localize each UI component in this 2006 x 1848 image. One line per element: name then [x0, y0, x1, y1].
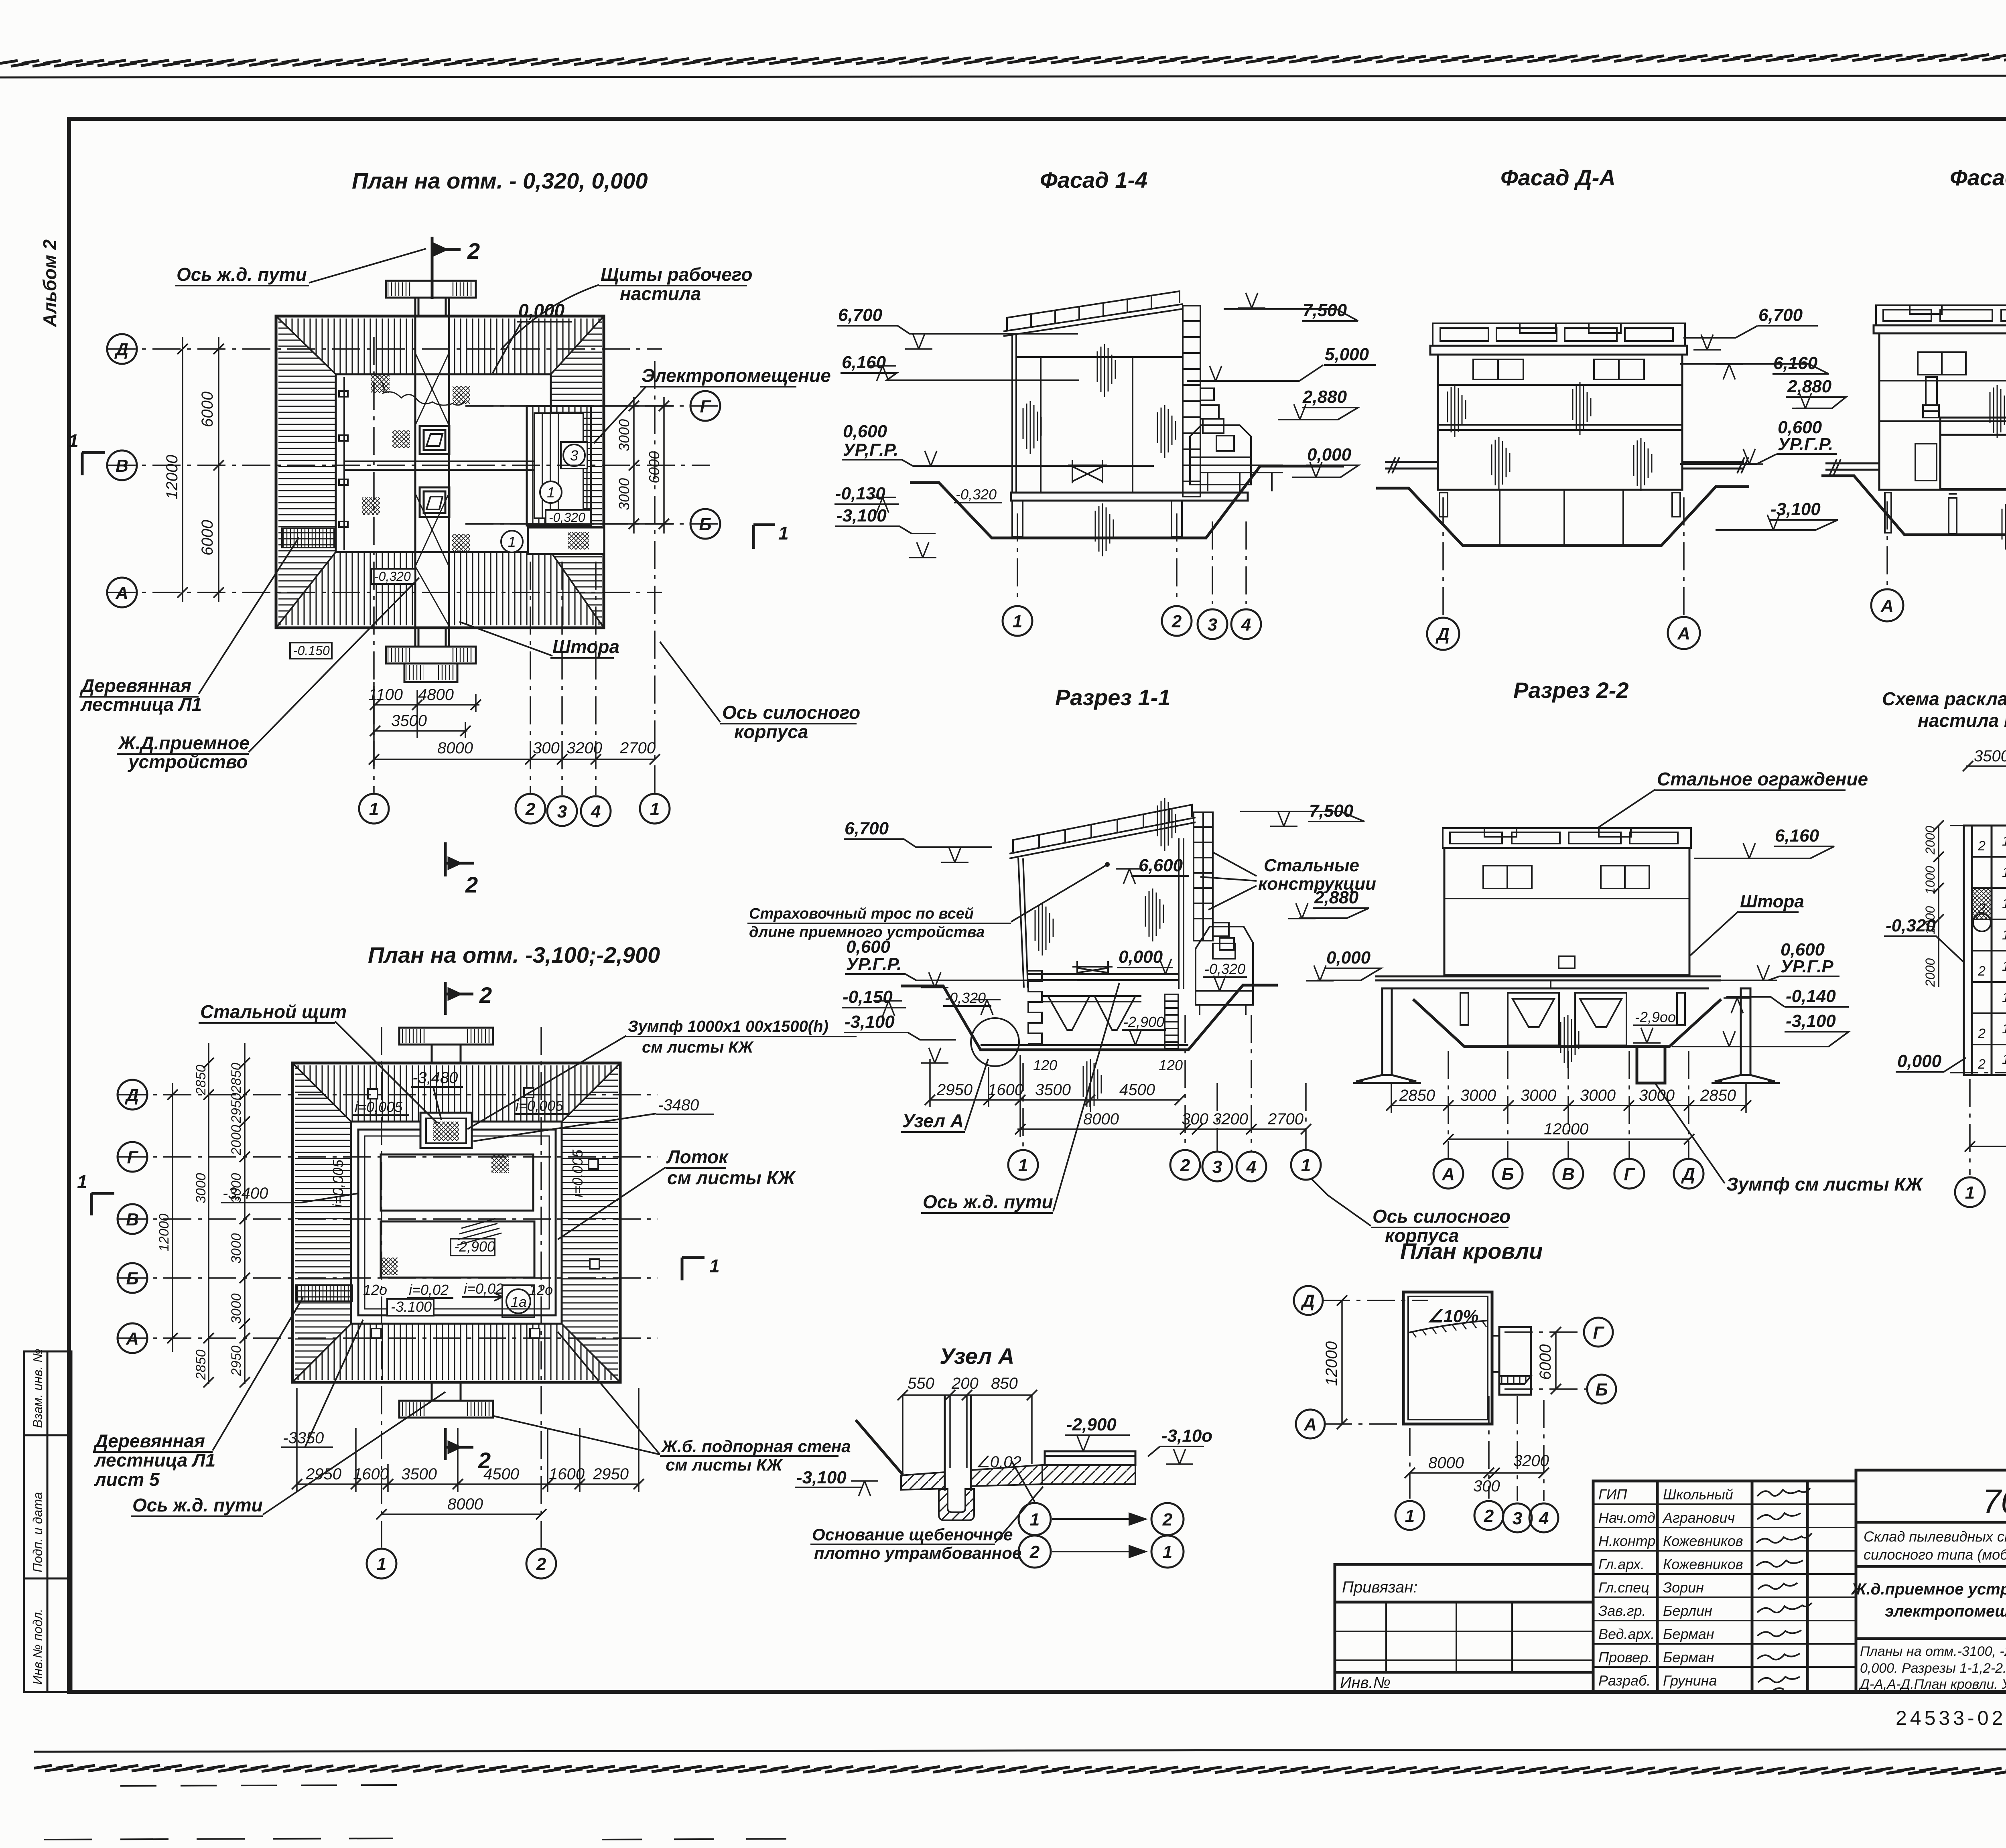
equipment circle 3	[561, 442, 587, 469]
railway corridor white cut	[414, 305, 450, 650]
svg-text:2: 2	[1029, 1542, 1040, 1562]
svg-text:2: 2	[1484, 1506, 1494, 1526]
svg-text:Ось ж.д. пути: Ось ж.д. пути	[923, 1191, 1053, 1212]
panel grid verticals	[1964, 826, 2006, 1075]
leader from plan to uzel	[1011, 1460, 1035, 1502]
svg-text:Лоток: Лоток	[666, 1146, 729, 1167]
svg-text:Зорин: Зорин	[1663, 1579, 1704, 1596]
pit profile	[901, 985, 1278, 1050]
slab with diagonal hatch	[901, 1472, 945, 1490]
axis lines vertical	[373, 337, 375, 793]
section mark 1 left	[91, 1193, 114, 1215]
boxed elevation -0.320 left	[371, 569, 415, 584]
svg-text:Д: Д	[1300, 1291, 1315, 1311]
svg-text:8000: 8000	[1428, 1454, 1464, 1472]
svg-text:3000: 3000	[193, 1173, 209, 1203]
parapet with panels	[1433, 323, 1685, 346]
svg-text:-3,480: -3,480	[412, 1069, 458, 1087]
svg-text:УР.Г.Р.: УР.Г.Р.	[846, 954, 901, 974]
svg-text:3500: 3500	[401, 1465, 437, 1483]
renumber circles	[1019, 1503, 1184, 1568]
sloped roof with parapet panels	[1003, 291, 1183, 336]
svg-text:24533-02: 24533-02	[1896, 1707, 2006, 1729]
svg-text:3500: 3500	[1035, 1081, 1071, 1099]
svg-text:12000: 12000	[156, 1213, 172, 1252]
axis circles left	[107, 334, 720, 607]
svg-text:∠10%: ∠10%	[1427, 1306, 1479, 1326]
small side window	[1915, 444, 1937, 481]
svg-text:Д: Д	[1435, 625, 1450, 644]
svg-text:В: В	[116, 456, 128, 476]
bottom axes	[1409, 1428, 1411, 1499]
names table texts	[1598, 1486, 1743, 1689]
wall supports below ground	[1440, 490, 1680, 546]
work floor	[1028, 973, 1179, 975]
svg-text:300: 300	[1473, 1477, 1500, 1495]
bottom thin border line	[34, 1749, 2006, 1752]
left margin mini table	[24, 1351, 71, 1692]
circle 1 below	[501, 531, 523, 552]
svg-text:-0,320: -0,320	[1204, 961, 1245, 977]
crosshatch marks	[491, 1155, 509, 1173]
bunker hoppers	[1508, 993, 1626, 1045]
ground slab	[1011, 493, 1248, 501]
svg-text:1600: 1600	[353, 1465, 389, 1483]
right tower with ladder rungs	[1183, 306, 1200, 497]
svg-text:4: 4	[1246, 1157, 1256, 1177]
svg-text:1: 1	[2002, 959, 2006, 974]
shade clusters	[1448, 384, 1466, 437]
cornice	[1874, 325, 2006, 333]
svg-text:2: 2	[467, 238, 480, 264]
stairs strip bottom left	[282, 528, 335, 548]
svg-text:Узел А: Узел А	[940, 1343, 1014, 1369]
shield slot	[945, 1395, 971, 1491]
svg-text:Б: Б	[699, 515, 711, 534]
svg-text:2,880: 2,880	[1314, 888, 1359, 907]
svg-text:А: А	[1442, 1164, 1455, 1184]
svg-text:12о: 12о	[363, 1282, 387, 1298]
svg-text:∠0,02: ∠0,02	[976, 1453, 1021, 1471]
svg-text:1000: 1000	[1923, 866, 1937, 895]
dims	[1391, 1083, 1746, 1139]
svg-text:Ось силосного: Ось силосного	[722, 702, 860, 723]
svg-text:-3,100: -3,100	[796, 1468, 847, 1487]
equipment circle 1	[540, 481, 562, 503]
left wall	[1012, 333, 1016, 493]
svg-text:6000: 6000	[199, 520, 216, 556]
svg-text:2: 2	[1978, 1026, 1986, 1041]
svg-text:1: 1	[1405, 1506, 1415, 1526]
svg-text:-3.100: -3.100	[391, 1298, 432, 1315]
svg-text:Стальной щит: Стальной щит	[200, 1001, 347, 1022]
svg-text:3200: 3200	[566, 739, 602, 757]
floor slab	[1375, 976, 1721, 988]
svg-text:Д: Д	[114, 340, 128, 359]
svg-text:-0,320: -0,320	[1886, 916, 1936, 935]
svg-text:1: 1	[1301, 1156, 1311, 1175]
svg-text:1600: 1600	[549, 1465, 585, 1483]
svg-text:4800: 4800	[418, 686, 454, 704]
svg-text:1600: 1600	[988, 1081, 1023, 1099]
axes circles	[1886, 501, 1888, 589]
facade 1-4	[834, 167, 1376, 639]
svg-text:План на отм. -3,100;-2,900: План на отм. -3,100;-2,900	[368, 942, 660, 968]
svg-text:2,880: 2,880	[1787, 377, 1832, 396]
mid floor wall	[344, 461, 551, 470]
svg-text:1: 1	[1013, 612, 1022, 631]
svg-text:3000: 3000	[229, 1233, 244, 1264]
svg-text:Ж.д.приемное устройство,: Ж.д.приемное устройство,	[1850, 1580, 2006, 1598]
svg-text:Страховочный трос по всей: Страховочный трос по всей	[749, 905, 974, 922]
section mark 2 top	[445, 982, 473, 1015]
svg-text:настила на отм. 0,000 , 0,5: настила на отм. 0,000 , 0,590	[1918, 710, 2006, 731]
svg-text:8000: 8000	[1083, 1110, 1119, 1128]
svg-text:Зумпф 1000х1 00х1500(h): Зумпф 1000х1 00х1500(h)	[628, 1018, 828, 1035]
shade strokes in section	[1035, 903, 1053, 955]
right T footing	[1712, 988, 1780, 1083]
svg-text:-0,150: -0,150	[843, 987, 893, 1007]
windows	[1473, 359, 1644, 379]
columns under slab	[1012, 501, 1182, 537]
upper room	[381, 1154, 533, 1211]
svg-text:Б: Б	[1595, 1380, 1608, 1400]
svg-text:Кожевников: Кожевников	[1663, 1533, 1743, 1549]
svg-text:1: 1	[650, 799, 660, 819]
svg-text:Д: Д	[124, 1085, 139, 1105]
axis lines horizontal	[118, 1094, 658, 1095]
svg-text:Разрез 2-2: Разрез 2-2	[1513, 678, 1629, 703]
railway corridor walls	[415, 298, 449, 647]
faint bottom marks	[120, 1785, 401, 1786]
svg-text:Грунина: Грунина	[1663, 1672, 1717, 1689]
outer square	[292, 1063, 620, 1382]
boxed -2,900	[451, 1239, 495, 1256]
uzel A circle	[971, 1018, 1019, 1066]
svg-text:Ось ж.д. пути: Ось ж.д. пути	[132, 1495, 263, 1515]
axis circles	[118, 1080, 147, 1353]
svg-text:-3,100: -3,100	[1786, 1011, 1836, 1031]
svg-text:1: 1	[2002, 896, 2006, 911]
left wall	[1018, 858, 1028, 988]
svg-text:1: 1	[2002, 990, 2006, 1005]
svg-text:-0,130: -0,130	[835, 484, 885, 503]
svg-text:3000: 3000	[1460, 1087, 1496, 1104]
svg-text:-0,320: -0,320	[374, 569, 411, 584]
rail platform lines	[1385, 462, 1744, 469]
svg-text:Инв.№: Инв.№	[1340, 1674, 1391, 1692]
svg-text:Альбом 2: Альбом 2	[39, 239, 60, 327]
svg-text:3000: 3000	[616, 478, 632, 510]
axis circles	[1294, 1286, 1323, 1315]
inner walls double	[358, 1130, 556, 1315]
svg-text:1: 1	[1163, 1542, 1172, 1562]
svg-text:0,000: 0,000	[518, 300, 565, 321]
svg-text:4: 4	[591, 802, 601, 822]
svg-text:i=0,005: i=0,005	[355, 1099, 403, 1115]
rail tee structure bottom	[386, 628, 476, 682]
bottom dims	[1410, 1472, 1544, 1474]
svg-text:Зумпф см листы КЖ: Зумпф см листы КЖ	[1726, 1174, 1924, 1195]
svg-text:1: 1	[2002, 927, 2006, 943]
svg-text:-0,320: -0,320	[549, 510, 585, 525]
trestle support center	[1068, 460, 1107, 483]
svg-text:1: 1	[547, 484, 555, 501]
supports	[1885, 493, 2006, 534]
svg-text:см листы КЖ: см листы КЖ	[642, 1039, 754, 1056]
safety cable dots	[1105, 862, 1110, 867]
section 2-2	[1312, 678, 1924, 1246]
svg-text:2850: 2850	[1399, 1087, 1435, 1104]
svg-text:3000: 3000	[616, 419, 632, 451]
section mark 2 bottom	[445, 1428, 473, 1460]
axis lines right	[1950, 825, 2006, 826]
names table grid	[1593, 1481, 1856, 1692]
svg-text:-0,140: -0,140	[1786, 986, 1836, 1006]
svg-text:3000: 3000	[1580, 1087, 1616, 1104]
rails	[1825, 461, 2006, 470]
svg-text:708-57.90-АР: 708-57.90-АР	[1982, 1483, 2006, 1520]
hatched embankment band right	[551, 318, 602, 625]
wall panel marks	[339, 391, 348, 527]
svg-text:В: В	[1562, 1164, 1575, 1184]
svg-text:Берман: Берман	[1663, 1649, 1714, 1665]
svg-text:А: А	[1880, 596, 1894, 616]
svg-text:1: 1	[778, 523, 789, 544]
svg-text:-0.150: -0.150	[293, 643, 330, 658]
facade left elevation marks	[835, 305, 898, 525]
svg-text:Стальное ограждение: Стальное ограждение	[1657, 769, 1868, 789]
main wall	[1879, 333, 2006, 490]
svg-text:2: 2	[525, 799, 536, 819]
svg-text:2850: 2850	[1700, 1087, 1736, 1104]
svg-text:0,000: 0,000	[1119, 947, 1163, 967]
ceiling line	[1016, 356, 1183, 358]
svg-text:плотно утрамбованное: плотно утрамбованное	[814, 1544, 1021, 1562]
circle 1a	[502, 1285, 534, 1317]
svg-text:Склад пылевидных строительных: Склад пылевидных строительных материалов…	[1864, 1528, 2006, 1545]
section mark 1 right	[682, 1258, 705, 1280]
parapet with panels	[1876, 305, 2006, 325]
svg-text:Взам. инв. №: Взам. инв. №	[30, 1349, 45, 1428]
torn edge freehand line	[375, 375, 465, 405]
title block	[1335, 1470, 2006, 1731]
elevation labels left	[843, 819, 901, 1032]
decorative wavy border line top	[0, 54, 2006, 66]
decorative wavy border line bottom	[34, 1765, 2006, 1774]
svg-text:2850: 2850	[193, 1065, 209, 1095]
svg-text:Зав.гр.: Зав.гр.	[1598, 1603, 1646, 1619]
svg-text:1: 1	[2002, 834, 2006, 849]
svg-text:2950: 2950	[229, 1093, 244, 1124]
right brick tower	[1194, 812, 1213, 941]
svg-text:1: 1	[2002, 865, 2006, 880]
svg-text:Кожевников: Кожевников	[1663, 1556, 1743, 1572]
svg-text:0,000: 0,000	[1307, 445, 1352, 465]
svg-text:УР.Г.Р: УР.Г.Р	[1781, 957, 1833, 976]
svg-text:5,000: 5,000	[1325, 345, 1369, 364]
svg-text:Щиты рабочего: Щиты рабочего	[601, 264, 752, 285]
svg-text:Планы на отм.-3100, -2,900,-0,: Планы на отм.-3100, -2,900,-0,320	[1860, 1644, 2006, 1659]
rail tee structure top	[386, 281, 476, 316]
svg-text:3: 3	[1212, 1157, 1222, 1177]
section 1-1	[747, 685, 1381, 1213]
panel grid horizontals	[1972, 841, 2006, 1091]
inner opening	[351, 1122, 562, 1324]
big sliding door	[1940, 418, 2006, 489]
left T footing	[1353, 988, 1421, 1083]
inner partitions	[1040, 357, 1042, 493]
svg-text:1: 1	[1018, 1156, 1028, 1175]
svg-text:Гл.спец: Гл.спец	[1598, 1579, 1649, 1596]
trestle on floor	[1072, 961, 1113, 974]
svg-text:1: 1	[68, 430, 79, 451]
labels right	[1740, 826, 1836, 1031]
svg-text:3: 3	[557, 802, 567, 822]
svg-text:-0,320: -0,320	[956, 486, 997, 503]
dimension rows	[930, 1055, 1306, 1137]
main wall	[1438, 355, 1682, 490]
svg-text:0,000. Разрезы 1-1,2-2.Фасады: 0,000. Разрезы 1-1,2-2.Фасады 1-4,	[1860, 1661, 2006, 1676]
inner wall line left	[343, 377, 345, 550]
svg-text:2: 2	[1978, 1057, 1986, 1072]
sump top center	[420, 1113, 472, 1148]
svg-text:Фасад А-Д: Фасад А-Д	[1950, 165, 2006, 190]
svg-text:Привязан:: Привязан:	[1342, 1578, 1417, 1596]
svg-text:А: А	[115, 583, 128, 603]
svg-text:Нач.отд: Нач.отд	[1598, 1509, 1655, 1526]
boxed -3,100	[387, 1299, 434, 1316]
svg-text:Штора: Штора	[1740, 892, 1804, 911]
hatched embankment band top	[278, 318, 602, 374]
grate box lower	[420, 487, 449, 517]
pit	[1821, 476, 2006, 535]
right platform	[1200, 465, 1283, 491]
svg-text:6,160: 6,160	[842, 353, 886, 372]
svg-text:4: 4	[1241, 615, 1251, 635]
svg-text:-3,100: -3,100	[837, 506, 887, 525]
parapet with panels	[1443, 828, 1691, 848]
svg-text:-3,100: -3,100	[845, 1012, 895, 1032]
svg-text:6000: 6000	[646, 451, 662, 483]
svg-text:3000: 3000	[1639, 1087, 1675, 1104]
svg-text:ГИП: ГИП	[1598, 1486, 1627, 1503]
roof stack left	[1923, 377, 1939, 418]
svg-text:Школьный: Школьный	[1663, 1486, 1733, 1503]
svg-text:3500: 3500	[1974, 747, 2006, 765]
svg-text:6,160: 6,160	[1775, 826, 1819, 846]
corridor cross bracing	[415, 353, 449, 626]
svg-text:Схема раскладки щитов Рабоч: Схема раскладки щитов Рабочего	[1882, 688, 2006, 709]
svg-text:0,000: 0,000	[1326, 948, 1371, 968]
svg-text:120: 120	[1159, 1057, 1183, 1073]
svg-text:А: А	[1677, 624, 1690, 643]
svg-text:2: 2	[479, 982, 492, 1008]
svg-text:0,000: 0,000	[1897, 1051, 1942, 1071]
svg-text:8000: 8000	[437, 739, 473, 757]
stair steps right of tower	[1200, 388, 1224, 433]
svg-text:3000: 3000	[229, 1293, 244, 1324]
shade	[1561, 1015, 1579, 1068]
bottom dimension chains	[373, 682, 655, 766]
svg-text:6000: 6000	[1537, 1344, 1554, 1380]
main roof rectangle	[1403, 1292, 1492, 1424]
section mark 2 top	[432, 237, 461, 299]
svg-text:3000: 3000	[1521, 1087, 1556, 1104]
axes under facade	[1017, 513, 1018, 602]
svg-text:2000: 2000	[1923, 826, 1937, 855]
svg-text:2000: 2000	[229, 1125, 244, 1156]
svg-text:300: 300	[533, 739, 560, 757]
svg-text:2950: 2950	[229, 1345, 244, 1376]
inner pit outline	[336, 374, 551, 552]
svg-text:3: 3	[570, 447, 578, 464]
svg-text:Провер.: Провер.	[1598, 1649, 1652, 1665]
left dim 12000	[1341, 1300, 1343, 1424]
svg-text:7,500: 7,500	[1303, 300, 1347, 320]
svg-text:6,700: 6,700	[1758, 305, 1803, 325]
svg-text:2700: 2700	[619, 739, 656, 757]
svg-text:Вед.арх.: Вед.арх.	[1598, 1626, 1655, 1642]
svg-text:4: 4	[1539, 1509, 1549, 1528]
electro room	[527, 406, 591, 525]
svg-text:Фасад Д-А: Фасад Д-А	[1500, 165, 1616, 190]
axes	[1448, 1051, 1449, 1158]
annex right	[1499, 1327, 1531, 1395]
svg-text:А: А	[1303, 1415, 1317, 1434]
svg-text:-0,320: -0,320	[945, 990, 986, 1006]
bottom circles	[1395, 1501, 1424, 1530]
svg-text:В: В	[126, 1210, 139, 1229]
svg-text:1: 1	[2002, 1021, 2006, 1037]
shade	[1990, 385, 2006, 438]
main box	[1444, 848, 1689, 975]
hatched embankment band bottom	[278, 552, 602, 625]
pit profile	[910, 466, 1344, 538]
lower room	[381, 1221, 534, 1278]
svg-text:850: 850	[991, 1375, 1018, 1392]
facade D-A	[1376, 165, 1838, 650]
svg-text:3: 3	[1513, 1509, 1522, 1528]
windows	[1918, 352, 2006, 375]
left vertical dims	[1938, 826, 1939, 987]
pit below slab	[939, 1489, 974, 1520]
svg-text:Г: Г	[1624, 1164, 1635, 1184]
right elevation labels	[1758, 305, 1833, 519]
boxed elevation -0.320 right	[546, 510, 591, 525]
corner diagonals	[276, 316, 604, 628]
sump	[1637, 1047, 1665, 1083]
right stair strip	[1165, 994, 1178, 1049]
hopper protrusion right	[1190, 425, 1251, 485]
svg-text:Ось ж.д. пути: Ось ж.д. пути	[177, 264, 307, 285]
svg-text:-3350: -3350	[283, 1429, 324, 1447]
svg-text:Берман: Берман	[1663, 1626, 1714, 1642]
svg-text:i=0,02: i=0,02	[409, 1282, 449, 1298]
svg-text:-2,900: -2,900	[1066, 1415, 1117, 1434]
bunker hoppers	[1043, 996, 1141, 1030]
ladder strip left	[296, 1285, 352, 1301]
pit slopes and floor	[1413, 999, 1721, 1047]
right hopper car	[1196, 927, 1253, 1015]
facade band lines	[1438, 384, 1682, 386]
vertical axes	[381, 1027, 382, 1548]
svg-text:i=0,005: i=0,005	[516, 1097, 564, 1114]
axis lines	[1322, 1300, 1428, 1301]
svg-text:3200: 3200	[1513, 1452, 1549, 1470]
svg-text:Агранович: Агранович	[1662, 1509, 1735, 1526]
crosshatch panels	[1973, 889, 1991, 919]
